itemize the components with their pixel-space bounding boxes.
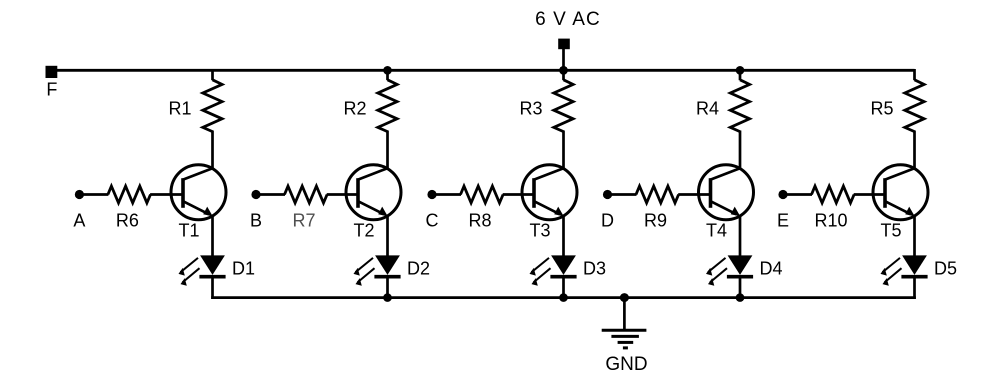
wire rail to resistor R1 [211, 69, 214, 80]
wire bottom rail (GND net) [211, 296, 916, 299]
junction (ground tap) [620, 293, 629, 302]
svg-text:6 V AC: 6 V AC [535, 9, 601, 30]
junction (top rail) [559, 66, 568, 75]
junction (bottom rail) [383, 293, 392, 302]
resistor R10 [812, 186, 855, 203]
wire resistor R2 to T2 collector [386, 131, 389, 169]
junction (top rail) [736, 66, 745, 75]
svg-text:R7: R7 [292, 210, 315, 230]
svg-text:R8: R8 [468, 210, 491, 230]
wire resistor R10 to T5 base [854, 193, 886, 196]
wire resistor R7 to T2 base [327, 193, 359, 196]
svg-text:D1: D1 [232, 259, 255, 279]
node D (input terminal) [603, 190, 612, 199]
svg-text:R6: R6 [116, 210, 139, 230]
resistor R3 [554, 80, 573, 132]
wire resistor R4 to T4 collector [739, 131, 742, 169]
svg-text:D: D [601, 210, 614, 230]
terminal F (square) [46, 66, 58, 78]
wire resistor R5 to T5 collector [913, 131, 916, 169]
svg-text:GND: GND [605, 354, 647, 375]
LED D4 [706, 255, 753, 285]
svg-text:D3: D3 [583, 259, 606, 279]
transistor T4 (NPN) [699, 165, 754, 220]
wire 6V feed to rail [562, 49, 565, 71]
svg-text:R10: R10 [814, 210, 847, 230]
transistor T1 (NPN) [171, 165, 226, 220]
svg-text:D4: D4 [760, 259, 783, 279]
svg-text:F: F [46, 80, 57, 100]
wire T3 emitter to LED D3 [562, 216, 565, 257]
node E (input terminal) [778, 190, 787, 199]
resistor R5 [905, 80, 924, 132]
svg-text:T3: T3 [529, 221, 550, 241]
wire C to resistor R8 [434, 193, 461, 196]
wire LED D4 to bottom rail [739, 278, 742, 299]
junction (top rail) [383, 66, 392, 75]
svg-text:E: E [777, 210, 789, 230]
wire LED D3 to bottom rail [562, 278, 565, 299]
transistor T2 (NPN) [346, 165, 401, 220]
node A (input terminal) [75, 190, 84, 199]
wire LED D1 to bottom rail [211, 278, 214, 299]
resistor R9 [636, 186, 679, 203]
svg-text:D2: D2 [407, 259, 430, 279]
junction (bottom rail) [559, 293, 568, 302]
wire top rail (net F) [51, 69, 915, 72]
wire rail to resistor R2 [386, 69, 389, 80]
svg-text:B: B [250, 210, 262, 230]
svg-text:R3: R3 [519, 99, 542, 119]
svg-text:T5: T5 [880, 221, 901, 241]
junction (6V feed) [559, 66, 568, 75]
LED D2 [354, 255, 401, 285]
wire T4 emitter to LED D4 [739, 216, 742, 257]
wire resistor R1 to T1 collector [211, 131, 214, 169]
resistor R4 [730, 80, 749, 132]
resistor R1 [203, 80, 222, 132]
svg-text:T4: T4 [706, 221, 727, 241]
svg-text:R9: R9 [644, 210, 667, 230]
terminal 6 V AC (square) [558, 39, 570, 50]
wire resistor R8 to T3 base [503, 193, 535, 196]
node C (input terminal) [427, 190, 436, 199]
svg-text:A: A [73, 210, 85, 230]
LED D5 [881, 255, 928, 285]
svg-text:R5: R5 [870, 99, 893, 119]
svg-text:C: C [426, 210, 439, 230]
wire T1 emitter to LED D1 [211, 216, 214, 257]
svg-text:R2: R2 [343, 99, 366, 119]
LED D3 [530, 255, 577, 285]
svg-text:R1: R1 [168, 99, 191, 119]
wire T2 emitter to LED D2 [386, 216, 389, 257]
resistor R8 [461, 186, 504, 203]
wire E to resistor R10 [785, 193, 812, 196]
svg-text:D5: D5 [934, 259, 957, 279]
transistor T3 (NPN) [522, 165, 577, 220]
wire rail to resistor R5 [913, 69, 916, 80]
wire T5 emitter to LED D5 [913, 216, 916, 257]
transistor T5 (NPN) [873, 165, 928, 220]
junction (bottom rail) [736, 293, 745, 302]
svg-text:T2: T2 [353, 221, 374, 241]
wire resistor R3 to T3 collector [562, 131, 565, 169]
wire resistor R6 to T1 base [150, 193, 184, 196]
wire LED D5 to bottom rail [913, 278, 916, 299]
wire rail to resistor R4 [739, 69, 742, 80]
resistor R7 [285, 186, 328, 203]
wire resistor R9 to T4 base [678, 193, 711, 196]
LED D1 [179, 255, 226, 285]
wire A to resistor R6 [81, 193, 108, 196]
resistor R2 [378, 80, 397, 132]
wire D to resistor R9 [610, 193, 637, 196]
ground symbol [602, 298, 647, 348]
wire LED D2 to bottom rail [386, 278, 389, 299]
wire rail to resistor R3 [562, 69, 565, 80]
resistor R6 [108, 186, 151, 203]
node B (input terminal) [251, 190, 260, 199]
wire B to resistor R7 [258, 193, 285, 196]
svg-text:R4: R4 [696, 99, 719, 119]
svg-text:T1: T1 [178, 221, 199, 241]
